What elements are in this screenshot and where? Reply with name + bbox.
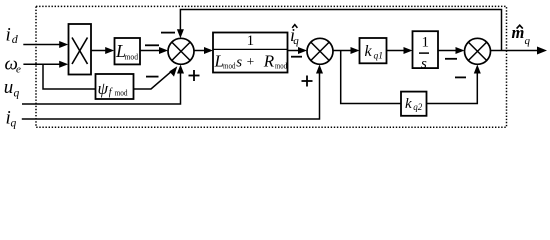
- block psi_f_mod: [96, 74, 134, 99]
- svg-text:mod: mod: [275, 61, 287, 70]
- svg-text:q: q: [14, 87, 20, 99]
- svg-text:1: 1: [422, 35, 430, 51]
- svg-text:k: k: [365, 43, 373, 60]
- summing junction 2: [307, 38, 333, 64]
- svg-text:q1: q1: [374, 52, 384, 62]
- svg-text:u: u: [4, 77, 14, 98]
- svg-text:mod: mod: [115, 88, 128, 97]
- svg-text:q: q: [525, 35, 531, 47]
- svg-text:q: q: [11, 117, 17, 129]
- svg-text:k: k: [405, 96, 412, 112]
- integrator block 1/s: [413, 31, 439, 68]
- summing junction 3: [465, 38, 491, 64]
- svg-text:q2: q2: [413, 102, 423, 112]
- svg-text:s: s: [236, 54, 242, 70]
- wire summing junction 1 to plant block: [194, 50, 207, 52]
- block k_q2: [401, 92, 427, 116]
- wire k_q2 up into summing junction 3 (minus): [427, 71, 478, 104]
- dashed observer boundary: [36, 6, 507, 127]
- svg-text:i: i: [6, 24, 11, 45]
- svg-text:mod: mod: [223, 61, 236, 70]
- wire plant to summing junction 2 (minus), label i_q hat: [288, 50, 301, 52]
- wire L_mod to summing junction 1 (minus): [140, 50, 161, 52]
- svg-text:ψ: ψ: [98, 79, 109, 98]
- wire multiplier to L_mod: [91, 50, 108, 52]
- svg-text:d: d: [12, 32, 19, 46]
- wire omega_e branch down to psi block: [43, 64, 96, 89]
- wire summing junction 2 to k_q1: [333, 50, 353, 52]
- top feedback wire into summing junction 1 (minus): [180, 10, 501, 51]
- plant block 1/(L_mod s + R_mod): [213, 33, 288, 73]
- wire omega_e into multiplier: [23, 63, 61, 65]
- svg-text:m: m: [512, 23, 525, 42]
- svg-text:s: s: [421, 56, 427, 72]
- block L_mod: [115, 38, 141, 64]
- multiplier block: [69, 24, 92, 75]
- wire psi block to summing junction 1 diagonal (minus): [134, 70, 173, 89]
- wire branch down to k_q2: [341, 51, 401, 104]
- svg-text:mod: mod: [125, 51, 139, 61]
- block k_q1: [360, 38, 387, 63]
- svg-text:q: q: [293, 35, 299, 47]
- svg-text:+: +: [247, 54, 255, 69]
- svg-text:R: R: [263, 51, 275, 70]
- wire k_q1 to integrator: [387, 50, 407, 52]
- wire integrator to summing junction 3 (minus): [438, 50, 458, 52]
- wire u_q into summing junction 1 bottom (plus): [22, 71, 181, 104]
- svg-text:e: e: [16, 64, 21, 76]
- summing junction 1: [168, 38, 194, 64]
- svg-text:1: 1: [247, 33, 255, 49]
- wire i_d into multiplier: [23, 44, 61, 46]
- wire i_q into summing junction 2 bottom (plus): [22, 71, 320, 119]
- output wire m_q hat: [491, 50, 540, 52]
